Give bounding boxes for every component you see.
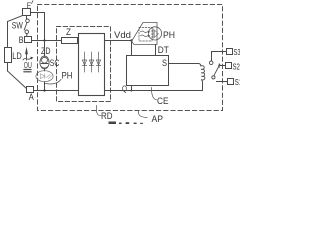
- wire E to right corner: [31, 13, 45, 41]
- lead SC to PH cell: [44, 69, 46, 71]
- contact S3 wire: [212, 51, 227, 53]
- junction node at B/E wire: [43, 39, 45, 41]
- contact S2 wire: [219, 65, 226, 67]
- svg-text:B: B: [19, 35, 24, 45]
- junction node Vdd: [130, 39, 132, 41]
- dashed box RD (outer remote-device enclosure): [38, 5, 223, 111]
- wire E diagonal to left rail: [8, 16, 23, 22]
- svg-text:OU: OU: [24, 61, 32, 70]
- CE leader: [152, 88, 157, 100]
- wiper top contact: [209, 61, 213, 65]
- wire PH to DT box: [155, 45, 157, 56]
- node E square: [23, 9, 31, 16]
- PH leader arc: [46, 80, 62, 85]
- CE rail: [105, 90, 203, 92]
- svg-text:PH: PH: [163, 30, 175, 40]
- wiper feed wire: [211, 52, 213, 61]
- svg-text:LD: LD: [12, 51, 22, 61]
- svg-text:DT: DT: [158, 45, 169, 55]
- svg-text:S2: S2: [233, 63, 241, 72]
- laser diode LD body: [5, 48, 12, 63]
- photodiode symbol: [152, 29, 154, 38]
- wire down to SC cell: [44, 41, 46, 57]
- svg-text:Q: Q: [122, 85, 127, 94]
- svg-text:S: S: [162, 58, 167, 68]
- dashed light window: [139, 28, 152, 42]
- junction at Q pin: [131, 90, 133, 92]
- solar cell SC envelope: [40, 56, 49, 69]
- tick near E: [32, 1, 33, 4]
- double bar marks: [24, 69, 31, 71]
- detector box DT: [127, 56, 169, 86]
- coil bottom lead: [201, 80, 204, 91]
- node A square: [27, 87, 34, 93]
- svg-text:S1: S1: [235, 78, 240, 87]
- solar cell array box: [79, 34, 105, 96]
- lead PH to A wire: [44, 82, 46, 91]
- contact S3 square: [227, 49, 233, 55]
- wire LD diagonal to node A: [8, 71, 27, 89]
- svg-text:A: A: [29, 92, 34, 102]
- svg-text:ZD: ZD: [41, 46, 51, 56]
- relay coil: [201, 66, 205, 80]
- svg-text:PH: PH: [62, 71, 73, 81]
- wiper arm end contact: [212, 76, 215, 79]
- light emission arrow (up): [26, 53, 28, 60]
- light ray 2: [141, 35, 148, 37]
- dashed box AP (inner enclosure around Z and solar-cell box): [57, 27, 111, 102]
- photodetector PH housing (parallelogram): [132, 23, 158, 45]
- pin Q lead: [131, 86, 133, 91]
- Vdd wire: [105, 40, 132, 42]
- PH cell inner symbol: [41, 74, 53, 79]
- photodiode lens circle: [148, 27, 161, 40]
- wire A to solar-cell box: [34, 90, 79, 92]
- svg-text:Vdd: Vdd: [114, 30, 131, 40]
- light ray 1: [141, 31, 148, 33]
- svg-text:RD: RD: [101, 111, 113, 121]
- svg-text:S3: S3: [234, 48, 241, 57]
- diode D3: [96, 52, 100, 72]
- wavy light arrow: [23, 58, 31, 60]
- RD leader: [97, 106, 102, 116]
- diode D2: [89, 52, 93, 72]
- diode D1: [82, 52, 86, 72]
- switch SW: [26, 16, 28, 19]
- svg-text:SC: SC: [50, 58, 60, 68]
- wire left rail: [7, 22, 9, 48]
- wire S to relay coil: [169, 64, 201, 66]
- resistor Z: [62, 38, 78, 44]
- contact S2 square: [226, 63, 232, 69]
- svg-text:SW: SW: [12, 20, 23, 30]
- wire LD bottom lead: [7, 63, 9, 72]
- wire B to resistor Z: [32, 40, 62, 42]
- SC diode symbol: [42, 57, 48, 63]
- svg-text:AP: AP: [152, 114, 164, 124]
- svg-text:Z: Z: [66, 27, 71, 37]
- wiper arm: [214, 64, 220, 75]
- wire Z to box: [78, 40, 79, 42]
- node B square: [25, 37, 32, 43]
- svg-text:CE: CE: [157, 96, 169, 106]
- AP leader: [139, 111, 148, 118]
- cropped text fragments at bottom: [109, 122, 143, 125]
- contact S2 tick: [218, 64, 220, 68]
- contact S1 wire: [217, 81, 228, 83]
- wire Vdd down to DT box: [131, 41, 133, 56]
- photodiode PH ellipse: [36, 71, 53, 82]
- junction at A wire: [43, 89, 45, 91]
- contact S1 square: [228, 79, 234, 85]
